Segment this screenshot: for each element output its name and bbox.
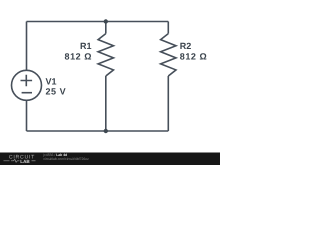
- watermark bar: [0, 153, 220, 166]
- wire bottom-left (V1 to node B): [27, 130, 106, 132]
- svg-text:25 V: 25 V: [46, 86, 67, 96]
- watermark text: [42, 153, 89, 161]
- wire V1 bottom lead: [26, 100, 28, 131]
- wire top-right (node A to R2): [106, 21, 169, 23]
- resistor R2: [161, 22, 176, 132]
- wire V1 top lead: [26, 22, 28, 71]
- svg-text:R1: R1: [80, 41, 92, 51]
- watermark CircuitLab logo: [4, 155, 36, 164]
- wire top-left (V1 to node A): [27, 21, 106, 23]
- svg-text:812 Ω: 812 Ω: [180, 51, 207, 61]
- voltage source V1: [12, 70, 42, 100]
- resistor R1: [98, 22, 113, 132]
- svg-text:LAB: LAB: [20, 159, 30, 164]
- svg-text:812 Ω: 812 Ω: [65, 51, 92, 61]
- node A (top junction): [104, 19, 108, 23]
- svg-text:R2: R2: [180, 41, 192, 51]
- svg-text:circuitlab.com/circuit/4bf726e: circuitlab.com/circuit/4bf726ez: [43, 157, 89, 161]
- wire bottom-right (node B to R2): [106, 130, 169, 132]
- svg-text:V1: V1: [46, 77, 57, 87]
- node B (bottom junction): [104, 129, 108, 133]
